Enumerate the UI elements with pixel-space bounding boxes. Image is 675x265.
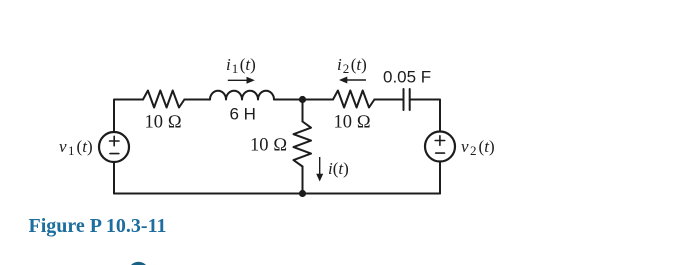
V2 minus sign xyxy=(436,152,445,154)
current arrow i2 (left) xyxy=(346,79,367,80)
capacitor C1 0.05 F xyxy=(403,89,405,110)
node B junction dot xyxy=(299,190,306,197)
wire R3 to capacitor C1 xyxy=(374,99,403,101)
svg-text:i(t): i(t) xyxy=(328,159,349,178)
resistor R3 10 ohm xyxy=(333,91,374,108)
wire right vertical below V2 xyxy=(439,162,441,194)
svg-text:i1(t): i1(t) xyxy=(226,55,256,76)
V1 plus sign xyxy=(110,140,120,142)
svg-text:i2(t): i2(t) xyxy=(337,55,367,76)
current arrow i1 (right) xyxy=(228,80,248,81)
resistor R2 10 ohm vertical xyxy=(294,122,312,167)
V1 minus sign xyxy=(110,153,119,155)
V2 plus sign xyxy=(435,140,445,142)
svg-text:10 Ω: 10 Ω xyxy=(334,113,371,133)
wire node A to resistor R2 xyxy=(302,100,304,122)
node A junction dot xyxy=(299,96,306,103)
resistor R1 10 ohm xyxy=(143,91,184,108)
current arrow i (down) xyxy=(319,157,320,176)
svg-text:10 Ω: 10 Ω xyxy=(250,136,287,156)
wire R2 to bottom node B xyxy=(302,167,304,194)
wire C1 to top-right corner xyxy=(410,100,440,132)
wire top-left (source V1 to resistor R1) xyxy=(114,100,143,133)
svg-text:Figure P 10.3-11: Figure P 10.3-11 xyxy=(29,215,167,237)
svg-text:6 H: 6 H xyxy=(230,105,256,124)
wire left vertical below V1 xyxy=(113,162,115,194)
wire L1 to node A and to resistor R3 xyxy=(274,99,333,101)
wire bottom xyxy=(114,193,440,195)
svg-text:v2(t): v2(t) xyxy=(461,137,495,158)
svg-text:10 Ω: 10 Ω xyxy=(145,113,182,133)
wire R1 to L1 xyxy=(184,99,210,101)
voltage source V2 xyxy=(425,132,455,162)
svg-text:0.05 F: 0.05 F xyxy=(383,68,431,87)
inductor L1 6 H xyxy=(210,91,274,100)
page bullet (teal circle cut by bottom edge) xyxy=(129,262,149,265)
voltage source V1 xyxy=(99,132,129,162)
svg-text:v1(t): v1(t) xyxy=(59,137,93,158)
